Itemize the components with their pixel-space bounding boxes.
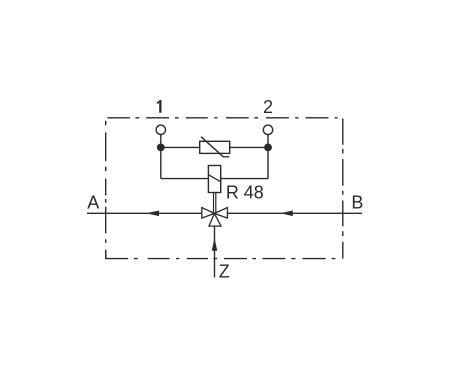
svg-text:B: B	[351, 193, 363, 213]
valve stem double line left	[213, 193, 215, 213]
wire circle2 to node2	[267, 135, 269, 148]
valve left triangle	[202, 208, 215, 219]
svg-text:R: R	[226, 183, 239, 203]
enclosure dash-dot border right edge	[342, 119, 344, 259]
wire node1 down	[160, 147, 162, 178]
junction node 1	[157, 144, 165, 152]
wire node2 down	[267, 147, 269, 178]
varistor R1 body	[200, 141, 230, 153]
wire circle1 to node1	[160, 135, 162, 148]
wire node1 to varistor	[161, 146, 200, 148]
enclosure dash-dot border left edge	[105, 121, 107, 259]
enclosure dash-dot border bottom edge	[134, 258, 343, 260]
valve bottom triangle	[209, 213, 221, 226]
valve right triangle	[214, 208, 227, 219]
pipe B segment	[227, 212, 362, 214]
enclosure border bottom-left corner	[106, 250, 129, 259]
svg-text:48: 48	[244, 183, 264, 203]
wire varistor to node2	[230, 146, 268, 148]
pipe Z vertical line	[214, 226, 216, 277]
solenoid coil R 48 body	[208, 166, 220, 193]
wire loop right to solenoid	[221, 178, 268, 180]
svg-text:Z: Z	[219, 262, 230, 282]
svg-text:2: 2	[263, 97, 273, 117]
terminal circle 1	[156, 125, 165, 134]
svg-text:A: A	[87, 193, 99, 213]
wire loop left to solenoid	[161, 178, 209, 180]
pipe A segment	[87, 212, 202, 214]
terminal circle 2	[263, 125, 272, 134]
varistor R1 diagonal stroke	[201, 137, 229, 157]
enclosure dash-dot border top edge	[107, 117, 342, 119]
solenoid coil diagonal	[208, 175, 220, 182]
flow arrow left (points left)	[146, 211, 159, 217]
terminal label 1	[157, 100, 162, 113]
flow arrow right (points left)	[281, 211, 293, 217]
valve stem double line right	[215, 193, 217, 213]
flow arrow Z (points up)	[212, 238, 218, 251]
junction node 2	[264, 144, 272, 152]
